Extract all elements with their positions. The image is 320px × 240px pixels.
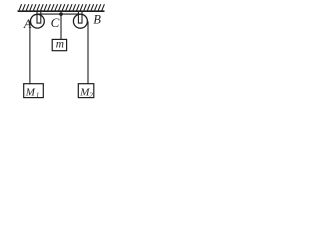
string from pulley A top to pulley B top bbox=[37, 13, 80, 15]
string from pulley B down to M2 bbox=[87, 21, 89, 84]
ceiling hatching bbox=[19, 4, 104, 10]
svg-text:2: 2 bbox=[89, 91, 93, 99]
pulley B bracket bbox=[78, 12, 82, 24]
knot C dot bbox=[59, 12, 63, 16]
string from knot C down to mass m bbox=[60, 14, 62, 40]
mass M2 box bbox=[78, 84, 94, 98]
string from pulley A down to M1 bbox=[29, 21, 31, 84]
mass m box bbox=[52, 39, 66, 50]
pulley B wheel bbox=[73, 14, 87, 28]
svg-text:m: m bbox=[56, 39, 64, 51]
mass M1 box bbox=[24, 84, 44, 98]
pulley A bracket bbox=[37, 12, 41, 24]
pulley A wheel bbox=[31, 14, 45, 28]
svg-text:M: M bbox=[25, 87, 36, 99]
svg-text:A: A bbox=[23, 17, 32, 31]
svg-text:B: B bbox=[93, 13, 101, 27]
svg-text:1: 1 bbox=[36, 91, 40, 99]
svg-text:C: C bbox=[51, 15, 60, 30]
ceiling line bbox=[18, 10, 105, 12]
